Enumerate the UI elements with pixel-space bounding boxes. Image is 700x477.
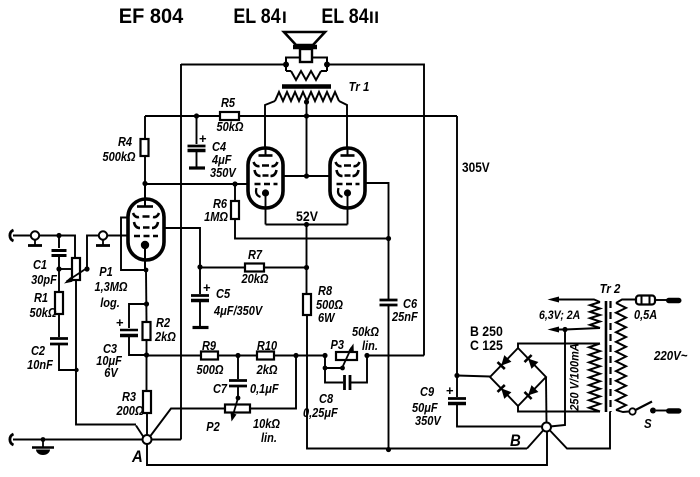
wire B+ rail [145, 115, 457, 117]
wire Tr1 primary right to EL84 II anode [339, 101, 347, 148]
label A [131, 448, 143, 466]
Tr1 primary center tap [304, 99, 309, 116]
wire R9 row [147, 355, 202, 357]
label C1 [31, 258, 57, 287]
label R8 [316, 284, 343, 325]
svg-text:P3: P3 [331, 338, 345, 352]
svg-text:P2: P2 [206, 420, 220, 434]
node P3 right [364, 353, 369, 358]
capacitor C7 [229, 356, 247, 399]
svg-text:R5: R5 [221, 96, 235, 110]
svg-text:1,3MΩ: 1,3MΩ [94, 280, 127, 294]
label P1 [94, 265, 127, 310]
wire P1 wiper to grid line [87, 236, 128, 270]
input jack J1 [10, 230, 14, 241]
svg-text:P1: P1 [99, 265, 112, 279]
tube EL84 II [330, 148, 365, 208]
svg-text:6W: 6W [318, 311, 335, 325]
label 305V [462, 159, 490, 175]
node ground stub [41, 437, 46, 442]
wire B SE diagonal to Tr2 core [550, 412, 611, 449]
wire 52V down [306, 225, 308, 295]
svg-text:I: I [282, 8, 287, 27]
capacitor C6 [380, 300, 398, 450]
node C7 bottom [236, 396, 241, 401]
resistor R8 [303, 294, 527, 449]
wire heater top arrow [548, 297, 601, 303]
wire primary bottom to switch [616, 410, 629, 412]
wire screen link [283, 175, 330, 177]
svg-text:6,3V; 2A: 6,3V; 2A [539, 309, 580, 322]
svg-text:50μF: 50μF [412, 401, 438, 415]
svg-text:2kΩ: 2kΩ [256, 363, 278, 377]
resistor R1 [55, 269, 63, 337]
wire A south bus to B [147, 431, 547, 465]
svg-text:+: + [199, 131, 207, 146]
label R4 [102, 135, 135, 164]
label C6 [391, 297, 418, 324]
node C5 top [197, 264, 202, 269]
potentiometer P3 [336, 344, 357, 368]
resistor R5 [220, 112, 239, 120]
bridge diode D3 (bottom-left) [498, 385, 512, 399]
wire A NE diagonal [150, 409, 225, 437]
wire EL84 II cathode [347, 193, 349, 225]
svg-text:C4: C4 [212, 140, 226, 154]
svg-text:50kΩ: 50kΩ [352, 325, 379, 339]
wire cathode 52V line [266, 224, 348, 226]
svg-text:350V: 350V [415, 414, 442, 428]
wire P2 right [250, 356, 296, 409]
wire input ground to node A [13, 439, 143, 441]
wire g2 exit [163, 228, 200, 267]
svg-text:+: + [446, 383, 454, 398]
node B+ / screen junction [304, 113, 309, 118]
label P3 [331, 325, 379, 353]
wire speaker right to feedback line [327, 65, 424, 356]
node C1 top [56, 233, 61, 238]
fuse 0,5A [636, 296, 655, 305]
capacitor C8 [325, 356, 367, 391]
node speaker left [283, 62, 289, 68]
Tr1 core [282, 84, 331, 89]
svg-text:30pF: 30pF [31, 273, 57, 287]
wire heater to node B [550, 330, 565, 427]
Tr2 core [606, 301, 611, 412]
resistor R10 [238, 352, 296, 360]
label Tr2 [600, 281, 621, 296]
wire bridge bottom AC [518, 406, 600, 412]
resistor R2 [143, 322, 151, 354]
node R6 top [232, 181, 237, 186]
svg-text:B: B [510, 432, 521, 450]
svg-text:2kΩ: 2kΩ [154, 330, 176, 344]
svg-text:R8: R8 [318, 284, 332, 298]
wire switch to terminal [656, 410, 668, 412]
resistor R9 [201, 352, 238, 360]
wire C1 bottom to P1 [59, 268, 72, 270]
svg-text:305V: 305V [462, 159, 490, 175]
wire EL84 II grid [365, 183, 389, 299]
svg-text:10kΩ: 10kΩ [253, 417, 280, 431]
svg-text:0,1μF: 0,1μF [250, 382, 279, 396]
wire fuse to terminal [655, 299, 668, 301]
svg-text:350V: 350V [210, 166, 237, 180]
svg-text:S: S [644, 416, 652, 431]
node R6 bottom [386, 236, 391, 241]
wire A NW diagonal [136, 426, 144, 438]
svg-text:52V: 52V [296, 208, 318, 224]
wire bridge top to Tr2 HT winding [518, 344, 600, 349]
node 52V [304, 222, 309, 227]
capacitor C5 ground bar [193, 326, 209, 329]
svg-text:Tr 1: Tr 1 [349, 79, 370, 94]
node C2/P1 bottom [74, 368, 78, 372]
label B250 C125 [470, 323, 503, 353]
svg-text:20kΩ: 20kΩ [241, 272, 269, 286]
wire P3 right to feedback [367, 355, 424, 357]
node screen link [304, 173, 309, 178]
Tr1 secondary winding [291, 71, 321, 80]
svg-text:II: II [369, 8, 379, 27]
Tr1 primary winding [275, 92, 339, 101]
wire top rail to speaker [181, 64, 286, 66]
svg-text:C8: C8 [319, 392, 333, 406]
wire Tr1 primary left to EL84 I anode [265, 101, 275, 148]
EF804 anode [137, 183, 153, 207]
resistor R4 [141, 116, 149, 183]
svg-text:6V: 6V [104, 366, 119, 380]
svg-text:250 V/100mA: 250 V/100mA [569, 343, 581, 411]
wire R10 to P3 [296, 355, 325, 357]
node B [542, 423, 551, 432]
node C7 top [235, 353, 240, 358]
node speaker right [324, 62, 330, 68]
svg-text:C7: C7 [213, 382, 227, 396]
label R1 [30, 291, 57, 320]
svg-text:C1: C1 [33, 258, 47, 272]
label 52V [296, 208, 318, 224]
node EF804 cathode [144, 268, 149, 273]
svg-text:10nF: 10nF [27, 358, 53, 372]
Tr1 secondary frame [286, 58, 327, 72]
resistor R7 [200, 264, 307, 272]
label R2 [154, 316, 176, 344]
wire C9 to bridge [457, 376, 490, 377]
wire heater bottom arrow [548, 327, 601, 333]
wire cathode to R2 [145, 270, 148, 322]
potentiometer P2 [225, 398, 250, 422]
bridge diode D1 (top-left) [498, 355, 512, 369]
svg-text:R1: R1 [34, 291, 48, 305]
label R10 [256, 339, 278, 377]
node C1 bottom / P1 wiper [56, 266, 61, 271]
label EL84 II [321, 5, 379, 29]
label C4 [210, 140, 237, 180]
label R9 [197, 339, 224, 377]
svg-text:500kΩ: 500kΩ [102, 150, 135, 164]
tube EL84 I [248, 148, 283, 208]
svg-text:R6: R6 [213, 197, 227, 211]
label 6,3V 2A [539, 309, 580, 322]
EF804 grid g1 row [134, 235, 158, 238]
mains terminal bottom [666, 408, 682, 413]
node R10 right [293, 353, 298, 358]
resistor R6 [231, 184, 389, 239]
EF804 cathode [141, 241, 149, 270]
svg-text:C2: C2 [31, 344, 45, 358]
capacitor C9 [446, 376, 542, 427]
svg-text:500Ω: 500Ω [316, 298, 343, 312]
svg-text:0,5A: 0,5A [634, 308, 657, 322]
svg-text:R2: R2 [156, 316, 170, 330]
node R2 top [144, 301, 149, 306]
svg-text:log.: log. [100, 296, 120, 310]
speaker magnet [300, 49, 312, 62]
svg-text:200Ω: 200Ω [116, 404, 144, 418]
svg-text:R3: R3 [122, 390, 136, 404]
label EL84 I [233, 5, 286, 29]
node EF804 anode [142, 181, 147, 186]
svg-text:lin.: lin. [261, 431, 277, 445]
EF804 grid g2 row [133, 213, 159, 217]
chassis ground symbol [32, 439, 54, 455]
speaker horn [284, 32, 325, 45]
bridge rectifier B250 C125 outline [490, 348, 546, 406]
svg-text:EL 84: EL 84 [233, 5, 280, 29]
svg-text:EL 84: EL 84 [321, 5, 368, 29]
Tr2 heater winding 6.3V [590, 302, 600, 328]
svg-text:4μF/350V: 4μF/350V [213, 304, 263, 318]
svg-text:C6: C6 [403, 297, 417, 311]
label 0,5A [634, 308, 657, 322]
svg-text:500Ω: 500Ω [197, 363, 224, 377]
svg-text:R9: R9 [202, 339, 216, 353]
resistor R3 [143, 355, 151, 435]
svg-text:+: + [203, 280, 211, 295]
bridge diode D4 (bottom-right) [525, 385, 539, 399]
terminal socket 2 [96, 231, 110, 245]
label C5 [213, 287, 263, 318]
svg-text:25nF: 25nF [391, 310, 418, 324]
wire P3 wiper tie [323, 356, 345, 371]
Tr2 primary winding 220V [616, 303, 626, 410]
svg-text:R4: R4 [118, 135, 132, 149]
speaker membrane [293, 45, 317, 50]
label P2 [206, 417, 280, 445]
svg-text:Tr 2: Tr 2 [600, 281, 621, 296]
svg-text:0,25μF: 0,25μF [303, 406, 338, 420]
capacitor C4 ground bar [189, 166, 205, 169]
svg-text:EF 804: EF 804 [119, 4, 184, 28]
node R2 bottom [144, 352, 149, 357]
capacitor C4 [188, 116, 208, 167]
svg-text:50kΩ: 50kΩ [30, 306, 57, 320]
label C7 [213, 382, 279, 396]
label C9 [412, 385, 442, 428]
node C4 top [194, 113, 199, 118]
label R3 [116, 390, 144, 418]
node P3 left [322, 353, 327, 358]
svg-text:R10: R10 [257, 339, 278, 353]
label C3 [96, 342, 122, 380]
label R6 [204, 197, 228, 224]
wire P1 bottom to ground line [76, 280, 136, 425]
svg-text:A: A [131, 448, 143, 466]
svg-text:1MΩ: 1MΩ [204, 210, 228, 224]
svg-text:+: + [116, 315, 124, 330]
node A [143, 435, 152, 444]
switch S [629, 402, 656, 415]
wire B SW diagonal [527, 430, 544, 449]
node C9 top [454, 373, 459, 378]
capacitor C3 [116, 304, 147, 355]
wire B+ to rectifier [456, 116, 458, 376]
svg-text:R7: R7 [248, 248, 262, 262]
wire screens [306, 116, 308, 176]
EF804 grid g3 row [134, 222, 158, 228]
input jack J1 ground [10, 434, 14, 445]
capacitor C1 [52, 235, 67, 269]
label Tr1 [349, 79, 370, 94]
svg-text:lin.: lin. [362, 339, 378, 353]
wire bridge minus to node B [545, 377, 548, 423]
svg-text:C5: C5 [216, 287, 230, 301]
tube EF804 envelope [128, 199, 164, 260]
svg-text:C9: C9 [420, 385, 434, 399]
label 250V/100mA [569, 343, 581, 411]
label R7 [241, 248, 269, 286]
wire input to P1 top [13, 236, 75, 259]
node P1 wiper right [84, 266, 89, 271]
wire primary top to fuse [616, 300, 636, 304]
terminal socket 1 [28, 231, 42, 245]
svg-text:220V~: 220V~ [653, 348, 687, 363]
node C6 bottom [386, 447, 391, 452]
Tr2 HT winding 250V [589, 344, 600, 412]
capacitor C2 [50, 339, 77, 371]
wire EL84 I cathode [265, 193, 267, 225]
wire speaker left to ground line A [180, 64, 182, 440]
capacitor C5 [191, 267, 211, 326]
potentiometer P1 [64, 258, 87, 284]
label C8 [303, 392, 338, 420]
label R5 [217, 96, 244, 134]
node heater to B [562, 327, 567, 332]
node R7 right [304, 265, 309, 270]
label S [644, 416, 652, 431]
label 220V [653, 348, 687, 363]
svg-text:50kΩ: 50kΩ [217, 120, 244, 134]
bridge diode D2 (top-right) [525, 355, 539, 369]
EF804 g3-cathode tie [121, 218, 145, 271]
svg-text:4μF: 4μF [211, 153, 232, 167]
mains terminal top [666, 298, 682, 303]
label EF804 [119, 4, 184, 28]
svg-text:C 125: C 125 [470, 337, 503, 353]
label C2 [27, 344, 53, 372]
label B [510, 432, 521, 450]
wire A east to speaker ground [151, 439, 182, 441]
wire anode to EL84 I grid [145, 183, 248, 185]
